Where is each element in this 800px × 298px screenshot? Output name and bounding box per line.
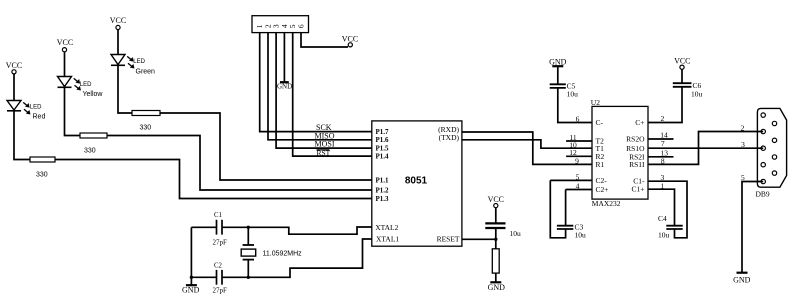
- resistor R1 330: [30, 157, 55, 179]
- svg-text:VCC: VCC: [674, 57, 690, 66]
- wire pin5 to P1.4 (RST): [293, 33, 372, 157]
- svg-text:C-: C-: [596, 118, 604, 127]
- wire pin1 to P1.7 (SCK): [260, 33, 372, 132]
- svg-text:C2+: C2+: [596, 185, 609, 194]
- svg-text:Yellow: Yellow: [83, 91, 104, 98]
- svg-text:330: 330: [84, 148, 96, 155]
- VCC symbol (reset): [488, 195, 504, 208]
- svg-text:Red: Red: [33, 114, 46, 121]
- wire VCC to green LED: [117, 30, 119, 55]
- wire C1 to GND rail: [191, 226, 216, 228]
- node junction reset: [494, 238, 497, 241]
- pin 12 number + R2 stub: [566, 148, 592, 157]
- ISP connector J1: [252, 16, 309, 33]
- wire DB9 pin5 to ground: [742, 182, 763, 273]
- svg-text:Green: Green: [136, 69, 156, 76]
- wire pin6 to VCC: [301, 33, 348, 47]
- svg-text:330: 330: [140, 125, 152, 132]
- svg-text:2: 2: [661, 114, 665, 123]
- wire red LED to resistor: [14, 111, 30, 160]
- wire resistor to ground: [495, 273, 497, 282]
- svg-text:8051: 8051: [405, 175, 428, 186]
- svg-text:R1: R1: [596, 160, 605, 169]
- svg-text:GND: GND: [182, 285, 200, 294]
- node junction crystal top: [247, 226, 250, 229]
- svg-text:LED: LED: [80, 82, 92, 88]
- wire VCC to C7: [495, 208, 497, 223]
- LED D2 Yellow: [58, 77, 104, 99]
- wire bottom rail left: [191, 276, 216, 278]
- svg-text:P1.2: P1.2: [376, 187, 390, 195]
- svg-text:C2: C2: [214, 263, 223, 270]
- crystal Y1 11.0592MHz: [241, 245, 302, 260]
- capacitor C1 27pF: [213, 212, 228, 246]
- svg-text:(TXD): (TXD): [439, 133, 460, 142]
- svg-text:VCC: VCC: [57, 38, 73, 47]
- svg-text:GND: GND: [488, 283, 506, 292]
- ground (reset): [488, 282, 506, 292]
- wire green LED to resistor: [118, 66, 132, 114]
- svg-text:XTAL2: XTAL2: [375, 223, 398, 232]
- connector J2 DB9: [756, 108, 787, 198]
- net label RST: [317, 148, 331, 157]
- svg-text:LED: LED: [133, 59, 145, 65]
- svg-text:10u: 10u: [658, 231, 670, 240]
- svg-text:330: 330: [36, 172, 48, 179]
- svg-text:MOSI: MOSI: [315, 140, 335, 149]
- wire red resistor to P1.3: [55, 160, 372, 199]
- svg-text:27pF: 27pF: [213, 238, 228, 246]
- LED D3 Green: [111, 55, 155, 76]
- svg-text:C+: C+: [635, 118, 644, 127]
- wire C5 to pin6 C-: [558, 88, 592, 123]
- wire crystal to bottom rail: [247, 260, 249, 278]
- svg-text:RS1I: RS1I: [629, 160, 645, 169]
- VCC symbol (green LED): [110, 16, 126, 30]
- svg-text:2: 2: [741, 124, 745, 133]
- svg-text:P1.1: P1.1: [376, 177, 390, 185]
- svg-text:U2: U2: [591, 98, 600, 107]
- LED D1 Red: [7, 101, 45, 121]
- pin 14 number + RS2O stub: [648, 131, 674, 140]
- svg-text:6: 6: [576, 115, 580, 124]
- wire yellow resistor to P1.2: [107, 136, 372, 191]
- capacitor C7 10u: [485, 223, 521, 238]
- wire yellow LED to resistor: [65, 88, 81, 136]
- node junction crystal bottom: [247, 276, 250, 279]
- svg-text:RS2O: RS2O: [626, 135, 645, 144]
- VCC symbol (connector): [342, 35, 358, 47]
- wire junction to crystal: [247, 227, 249, 245]
- svg-text:VCC: VCC: [488, 195, 504, 204]
- svg-text:6: 6: [297, 24, 306, 28]
- wire RESET to RC network: [462, 238, 496, 240]
- resistor R4 (reset pulldown): [492, 249, 499, 273]
- wire pin2 to P1.6 (MISO): [268, 33, 372, 140]
- svg-text:P1.4: P1.4: [376, 153, 390, 161]
- capacitor C6 10u: [673, 81, 703, 99]
- pin 13 number + RS2I stub: [648, 149, 674, 158]
- wire VCC to red LED: [13, 74, 15, 101]
- wire green resistor to P1.1: [160, 113, 372, 180]
- wire RS1I to DB9 pin2: [648, 132, 763, 165]
- wire TXD to T1 of MAX232: [462, 140, 592, 148]
- VCC symbol (yellow LED): [57, 38, 73, 52]
- wire C7 to junction: [495, 229, 497, 249]
- svg-text:3: 3: [741, 140, 745, 149]
- resistor R3 330: [132, 111, 160, 132]
- svg-text:LED: LED: [30, 105, 42, 111]
- ground (DB9): [733, 273, 751, 285]
- capacitor C3 10u: [550, 180, 586, 239]
- svg-text:27pF: 27pF: [213, 287, 228, 295]
- svg-text:C1: C1: [214, 212, 222, 219]
- ground (C5): [549, 58, 567, 67]
- svg-text:10u: 10u: [510, 229, 522, 238]
- svg-text:10u: 10u: [575, 231, 587, 240]
- svg-text:9: 9: [575, 157, 579, 166]
- wire GND to C5: [557, 66, 559, 84]
- resistor R2 330: [80, 133, 107, 155]
- capacitor C2 27pF: [213, 263, 228, 295]
- MCU U1 8051: [372, 121, 462, 246]
- capacitor C4 10u: [648, 181, 687, 239]
- svg-text:XTAL1: XTAL1: [376, 234, 399, 243]
- wire GND rail vertical: [190, 227, 192, 285]
- IC U2 MAX232: [591, 98, 648, 208]
- svg-text:GND: GND: [733, 276, 751, 285]
- svg-text:VCC: VCC: [6, 61, 22, 70]
- svg-text:C1+: C1+: [632, 185, 645, 194]
- svg-text:GND: GND: [277, 83, 292, 91]
- svg-text:C2-: C2-: [596, 176, 608, 185]
- svg-text:10u: 10u: [691, 90, 703, 99]
- wire C6 to pin2 C+: [648, 87, 682, 123]
- svg-text:11.0592MHz: 11.0592MHz: [263, 251, 303, 258]
- svg-text:P1.3: P1.3: [376, 195, 390, 203]
- VCC symbol (red LED): [6, 61, 22, 74]
- svg-text:10u: 10u: [567, 90, 579, 99]
- ground (crystal): [182, 285, 200, 294]
- svg-text:C4: C4: [658, 214, 667, 223]
- node junction GND rail bottom: [190, 276, 193, 279]
- svg-text:DB9: DB9: [756, 190, 770, 199]
- wire RXD to R1 of MAX232: [462, 132, 592, 164]
- svg-text:P1.5: P1.5: [376, 145, 390, 153]
- wire C2 to XTAL1: [222, 239, 372, 277]
- ground (connector pin4): [277, 33, 292, 91]
- svg-text:P1.7: P1.7: [376, 128, 390, 136]
- svg-text:7: 7: [661, 139, 665, 148]
- pin 4 number + C2+ wire: [566, 182, 592, 191]
- svg-text:VCC: VCC: [110, 16, 126, 25]
- svg-text:RESET: RESET: [437, 234, 460, 243]
- wire VCC to C6: [681, 69, 683, 83]
- pin 11 number + T2 stub: [566, 133, 592, 142]
- pin 5 number + C2- wire: [550, 173, 592, 182]
- wire pin3 to P1.5 (MOSI): [276, 33, 372, 149]
- wire XTAL2 to crystal: [222, 227, 372, 234]
- wire VCC to yellow LED: [64, 52, 66, 77]
- svg-text:P1.6: P1.6: [376, 136, 390, 144]
- VCC symbol (C6): [674, 57, 690, 70]
- svg-text:MAX232: MAX232: [592, 199, 621, 208]
- wire RS1O to DB9 pin3: [648, 147, 763, 149]
- capacitor C5 10u: [550, 82, 578, 99]
